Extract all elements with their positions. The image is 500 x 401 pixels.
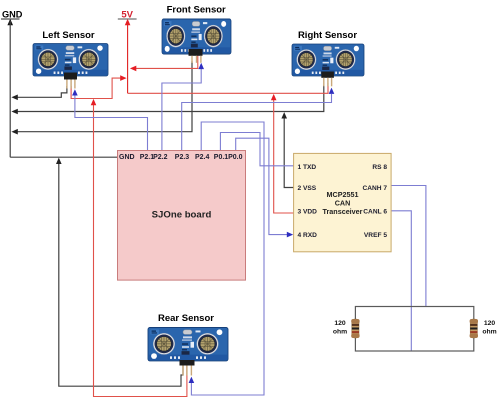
wire front sensor GND to bus — [11, 61, 192, 135]
svg-text:3 VDD: 3 VDD — [298, 208, 318, 215]
svg-text:2 VSS: 2 VSS — [298, 185, 317, 192]
wire rear sensor VCC riser — [91, 99, 187, 397]
left sensor header and pins — [64, 73, 77, 89]
wire left sensor GND to bus — [11, 86, 67, 100]
wire rear sensor GND riser — [56, 158, 183, 387]
svg-text:SJOne board: SJOne board — [152, 209, 212, 220]
svg-text:120: 120 — [484, 320, 496, 327]
ultrasonic rear sensor — [148, 328, 228, 361]
SJOne board U1 — [118, 151, 246, 281]
wire MCP2551 CANL to terminator — [391, 211, 411, 351]
svg-text:P2.1: P2.1 — [140, 154, 155, 161]
wire right sensor GND to bus — [11, 85, 323, 114]
ultrasonic left sensor — [33, 44, 108, 77]
MCP2551 pin labels — [298, 164, 388, 239]
svg-text:P0.1: P0.1 — [214, 154, 229, 161]
wire GND bus to SJOne board GND pin — [10, 156, 118, 158]
node 5V label — [118, 10, 137, 26]
wire right sensor signal to P2.3 — [182, 88, 335, 151]
rear sensor header and pins — [180, 360, 195, 376]
wire front sensor signal to P2.2 — [162, 63, 204, 151]
ultrasonic front sensor — [162, 19, 231, 54]
wire 5V rail — [127, 22, 129, 93]
svg-text:Front Sensor: Front Sensor — [167, 5, 226, 16]
resistor R2 120 ohm — [470, 319, 478, 338]
wire MCP2551 CANH to terminator — [391, 186, 426, 307]
label R2 120 ohm — [482, 320, 496, 336]
svg-text:Transceiver: Transceiver — [323, 207, 363, 216]
ultrasonic right sensor — [292, 44, 364, 76]
wire GND bus — [9, 21, 11, 157]
svg-text:120: 120 — [334, 320, 346, 327]
wire MCP2551 VDD riser — [271, 94, 294, 213]
wire front sensor VCC to 5V rail — [130, 55, 198, 71]
right sensor header and pins — [321, 72, 334, 87]
svg-text:CANH 7: CANH 7 — [362, 185, 387, 192]
svg-text:VREF 5: VREF 5 — [364, 232, 387, 239]
wire P0.1 to MCP2551 TXD — [220, 133, 293, 166]
svg-text:Left Sensor: Left Sensor — [42, 30, 95, 41]
wire P0.0 to MCP2551 RXD — [236, 138, 294, 237]
svg-text:ohm: ohm — [333, 329, 347, 336]
MCP2551 CAN transceiver U2 — [294, 153, 392, 251]
SJOne pin labels — [119, 154, 243, 161]
svg-text:RS 8: RS 8 — [372, 164, 387, 171]
svg-text:P2.2: P2.2 — [153, 154, 168, 161]
wire MCP2551 VSS to GND line — [281, 112, 293, 187]
svg-text:GND: GND — [119, 154, 135, 161]
wire left sensor signal to P2.1 — [72, 89, 147, 151]
svg-text:P2.4: P2.4 — [195, 154, 210, 161]
resistor R1 120 ohm — [351, 319, 359, 338]
CAN bus terminator loop — [355, 307, 473, 352]
svg-text:1 TXD: 1 TXD — [298, 164, 317, 171]
label R1 120 ohm — [333, 320, 347, 336]
wire 5V to right sensor VCC — [128, 83, 328, 93]
wire left sensor VCC to 5V rail — [71, 75, 127, 98]
svg-text:Right Sensor: Right Sensor — [298, 30, 357, 41]
svg-text:4 RXD: 4 RXD — [298, 232, 318, 239]
svg-text:P2.3: P2.3 — [175, 154, 190, 161]
svg-text:GND: GND — [2, 10, 23, 20]
svg-text:Rear Sensor: Rear Sensor — [158, 313, 214, 324]
svg-text:ohm: ohm — [482, 329, 496, 336]
wire rear sensor signal to P2.4 — [189, 122, 264, 395]
node GND label — [1, 10, 23, 26]
svg-text:P0.0: P0.0 — [228, 154, 243, 161]
front sensor header and pins — [189, 49, 203, 63]
svg-text:CANL 6: CANL 6 — [363, 208, 387, 215]
